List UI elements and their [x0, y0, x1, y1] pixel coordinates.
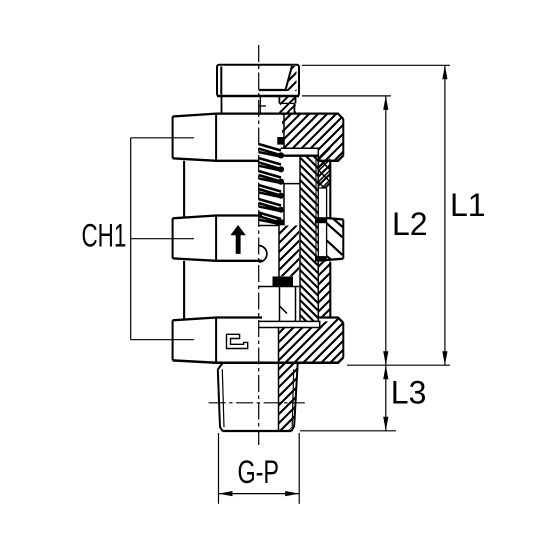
svg-text:L2: L2: [392, 206, 428, 242]
washer bottom: [259, 321, 320, 327]
dimension G-P: [219, 433, 300, 504]
dimension L1: [444, 65, 446, 365]
connector2 outline: [184, 261, 330, 319]
hex band2 outline: [173, 216, 344, 261]
threaded stud outline: [218, 363, 298, 431]
hatch: cap neck section: [280, 97, 296, 113]
hatch: inner tube column section: [300, 156, 318, 322]
svg-text:L1: L1: [450, 187, 486, 223]
svg-text:G-P: G-P: [238, 455, 280, 490]
o-ring upper: [315, 217, 327, 223]
internal section lines: [259, 114, 319, 431]
connector1 outline: [184, 161, 330, 218]
hex band3 outline: [173, 318, 344, 363]
hatch: poppet section: [280, 226, 300, 277]
logo: [227, 334, 248, 348]
cap neck outline: [222, 96, 296, 114]
spring top bar: [277, 137, 284, 145]
dimension L2: [385, 96, 387, 365]
washer slot upper: [280, 148, 318, 156]
arrowheads: [219, 65, 448, 496]
hatch: band1 block section: [282, 114, 343, 188]
extension lines: [300, 65, 450, 431]
hatch: stud section: [279, 363, 298, 431]
spring wire dots: [276, 152, 284, 225]
hatch: thread engagement chevron: [318, 148, 330, 188]
hatch: lower connector wall section: [319, 262, 331, 318]
flow arrow: [231, 226, 245, 254]
vertical centerline: [258, 45, 260, 445]
hex band1 outline: [173, 114, 344, 161]
svg-text:L3: L3: [391, 375, 427, 411]
hatch: cap right section: [285, 66, 296, 91]
CH1 bracket: [131, 138, 194, 340]
dimension L3: [385, 365, 387, 431]
spring coils: [259, 144, 282, 224]
seal poppet: [273, 277, 294, 287]
hex cap outline: [217, 65, 299, 96]
hatch: band3 block section: [279, 318, 344, 363]
hatch: band2 nut section: [327, 219, 344, 261]
horizontal centerline at thread: [209, 402, 305, 404]
o-ring groove at nut: [318, 188, 326, 256]
svg-text:CH1: CH1: [82, 217, 127, 253]
poppet ball arc: [259, 246, 267, 262]
o-ring lower: [315, 256, 327, 262]
